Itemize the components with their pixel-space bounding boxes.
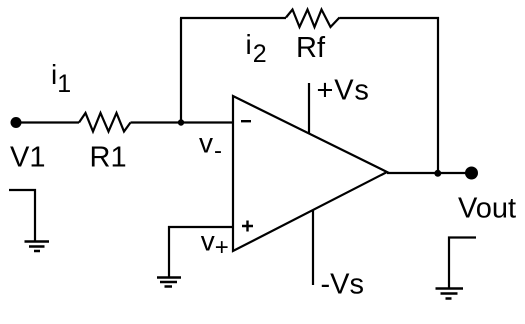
minus marker inverting input <box>241 120 251 122</box>
resistor Rf <box>286 10 340 28</box>
svg-text:-Vs: -Vs <box>321 269 365 301</box>
svg-text:v+: v+ <box>201 226 229 262</box>
svg-text:Rf: Rf <box>296 32 326 64</box>
wire R1 to inverting input <box>131 121 234 123</box>
wire V1 ground stub <box>9 190 35 241</box>
ground at v+ <box>157 278 181 287</box>
op-amp U1 <box>233 96 387 251</box>
svg-text:Vout: Vout <box>458 193 516 225</box>
svg-text:i2: i2 <box>246 29 267 68</box>
wire Rf to right corner <box>340 17 440 19</box>
svg-text:+Vs: +Vs <box>317 75 370 107</box>
wire down to ground at v+ <box>168 226 170 277</box>
plus marker non-inverting input <box>242 221 253 232</box>
pin +Vs <box>308 83 310 134</box>
terminal node V1 <box>11 117 22 128</box>
wire feedback right vertical <box>437 17 439 173</box>
terminal node Vout <box>465 167 478 180</box>
wire top left to Rf <box>180 17 286 19</box>
wire V1 to R1 <box>16 121 79 123</box>
pin -Vs <box>312 210 314 285</box>
wire feedback left vertical <box>180 18 182 123</box>
svg-text:V1: V1 <box>10 142 45 174</box>
ground at V1 <box>25 242 50 252</box>
ground at Vout <box>436 289 464 299</box>
wire non-inverting input <box>168 226 233 228</box>
resistor R1 <box>79 113 131 132</box>
svg-text:v-: v- <box>199 128 222 165</box>
node junction at inverting input <box>178 119 184 125</box>
wire Vout ground stub <box>449 238 476 289</box>
node junction feedback output <box>434 170 441 177</box>
wire output <box>387 172 471 174</box>
svg-text:i1: i1 <box>51 59 71 98</box>
svg-text:R1: R1 <box>90 142 127 174</box>
